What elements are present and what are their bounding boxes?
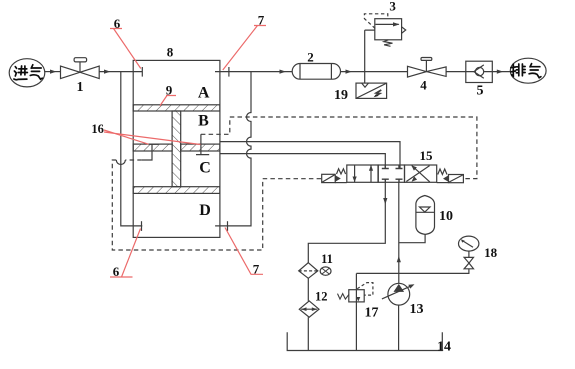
wire accumulator branch (399, 234, 425, 242)
valve 15 body left position (347, 165, 378, 182)
wire chamber B line (220, 142, 400, 169)
node inlet 进气 (9, 59, 45, 87)
wire top right port (215, 71, 292, 73)
排 glyph (511, 64, 516, 76)
pressure gauge 18 (459, 236, 479, 251)
svg-text:15: 15 (420, 148, 434, 163)
check valve unit 5 (466, 61, 511, 82)
wire cooler to tank (307, 317, 309, 350)
muffler 2 (292, 64, 340, 80)
node D-right port tick (227, 221, 229, 231)
svg-text:9: 9 (166, 83, 173, 98)
filter 11 (299, 263, 331, 279)
valve 15 right solenoid (437, 175, 464, 183)
valve 15 right position (crossed) (405, 165, 437, 182)
valve 15 right spring (438, 169, 447, 175)
red leader lines (104, 26, 266, 278)
leader 16 pair (104, 130, 201, 145)
svg-text:A: A (198, 85, 210, 102)
dashed sensor line left to solenoid (112, 160, 321, 250)
cylinder 8 body (133, 60, 220, 237)
svg-text:12: 12 (315, 290, 328, 304)
accumulator 10 (416, 196, 435, 235)
variable pump 13 (382, 283, 415, 350)
wire branch to relief 3 / transducer 19 (365, 30, 375, 83)
lower piston partition (133, 187, 220, 194)
wire muffler to valve4 (341, 71, 408, 73)
svg-text:7: 7 (258, 13, 265, 28)
wire filter to cooler (307, 278, 309, 301)
wire chamber C line (220, 154, 385, 169)
svg-text:8: 8 (167, 45, 174, 60)
svg-text:7: 7 (253, 262, 260, 277)
leader 9 (160, 96, 176, 106)
svg-text:16: 16 (91, 122, 104, 136)
气 glyph (529, 64, 541, 78)
svg-text:11: 11 (321, 252, 333, 266)
valve 4 (408, 58, 447, 78)
svg-text:18: 18 (484, 245, 498, 260)
relief valve 17 (338, 273, 373, 350)
svg-text:4: 4 (420, 78, 427, 93)
valve 15 centre position (378, 165, 404, 182)
piston 9 (upper partition) (133, 105, 220, 111)
wire valve A-port return line (308, 182, 385, 262)
svg-text:1: 1 (77, 80, 84, 95)
node top-right port tick (228, 67, 230, 77)
piston rod (172, 111, 181, 187)
node A port tick (141, 67, 143, 77)
wire valve4 to check box5 (446, 71, 466, 73)
node D-left port tick (141, 221, 143, 231)
svg-text:17: 17 (365, 306, 379, 321)
valve 1 (61, 58, 100, 79)
valve 15 left spring (337, 169, 346, 174)
wire valve P-port pump line (398, 182, 400, 283)
shutoff valve under gauge (464, 250, 473, 269)
气 glyph (30, 65, 42, 79)
pressure-electric transducer 19 (356, 83, 387, 98)
wire inlet to valve1 (45, 71, 61, 73)
leader 6 bottom (110, 229, 141, 278)
svg-text:D: D (199, 202, 211, 219)
sensor 16 left bracket (142, 144, 159, 160)
svg-text:6: 6 (114, 16, 121, 31)
svg-text:10: 10 (439, 209, 453, 224)
wire right branch down (with jumps) (215, 72, 251, 226)
leader 7 bottom (225, 228, 263, 275)
svg-text:B: B (198, 113, 209, 130)
svg-text:C: C (199, 159, 211, 176)
进 glyph (14, 67, 27, 80)
svg-text:5: 5 (477, 84, 484, 99)
svg-text:19: 19 (334, 88, 348, 103)
svg-text:6: 6 (113, 264, 120, 279)
svg-text:13: 13 (410, 302, 424, 317)
tank 14 (287, 332, 442, 350)
valve 15 left solenoid (322, 174, 347, 182)
svg-text:14: 14 (437, 340, 451, 355)
cooler 12 (299, 301, 319, 317)
wire valve1 to cylinder port A (99, 71, 142, 73)
node outlet 排气 (510, 58, 546, 83)
wire left branch down (121, 72, 143, 226)
leader 7 top (223, 26, 266, 71)
relief valve 3 (364, 14, 405, 47)
leader 6 top (110, 29, 141, 69)
dashed sensor line right to solenoid (201, 117, 477, 179)
sensor 16 right bracket (196, 134, 209, 154)
svg-text:2: 2 (307, 50, 314, 65)
wire gauge branch (356, 269, 469, 274)
svg-text:3: 3 (389, 0, 396, 14)
partition middle (with rod pass-through) (133, 144, 220, 151)
